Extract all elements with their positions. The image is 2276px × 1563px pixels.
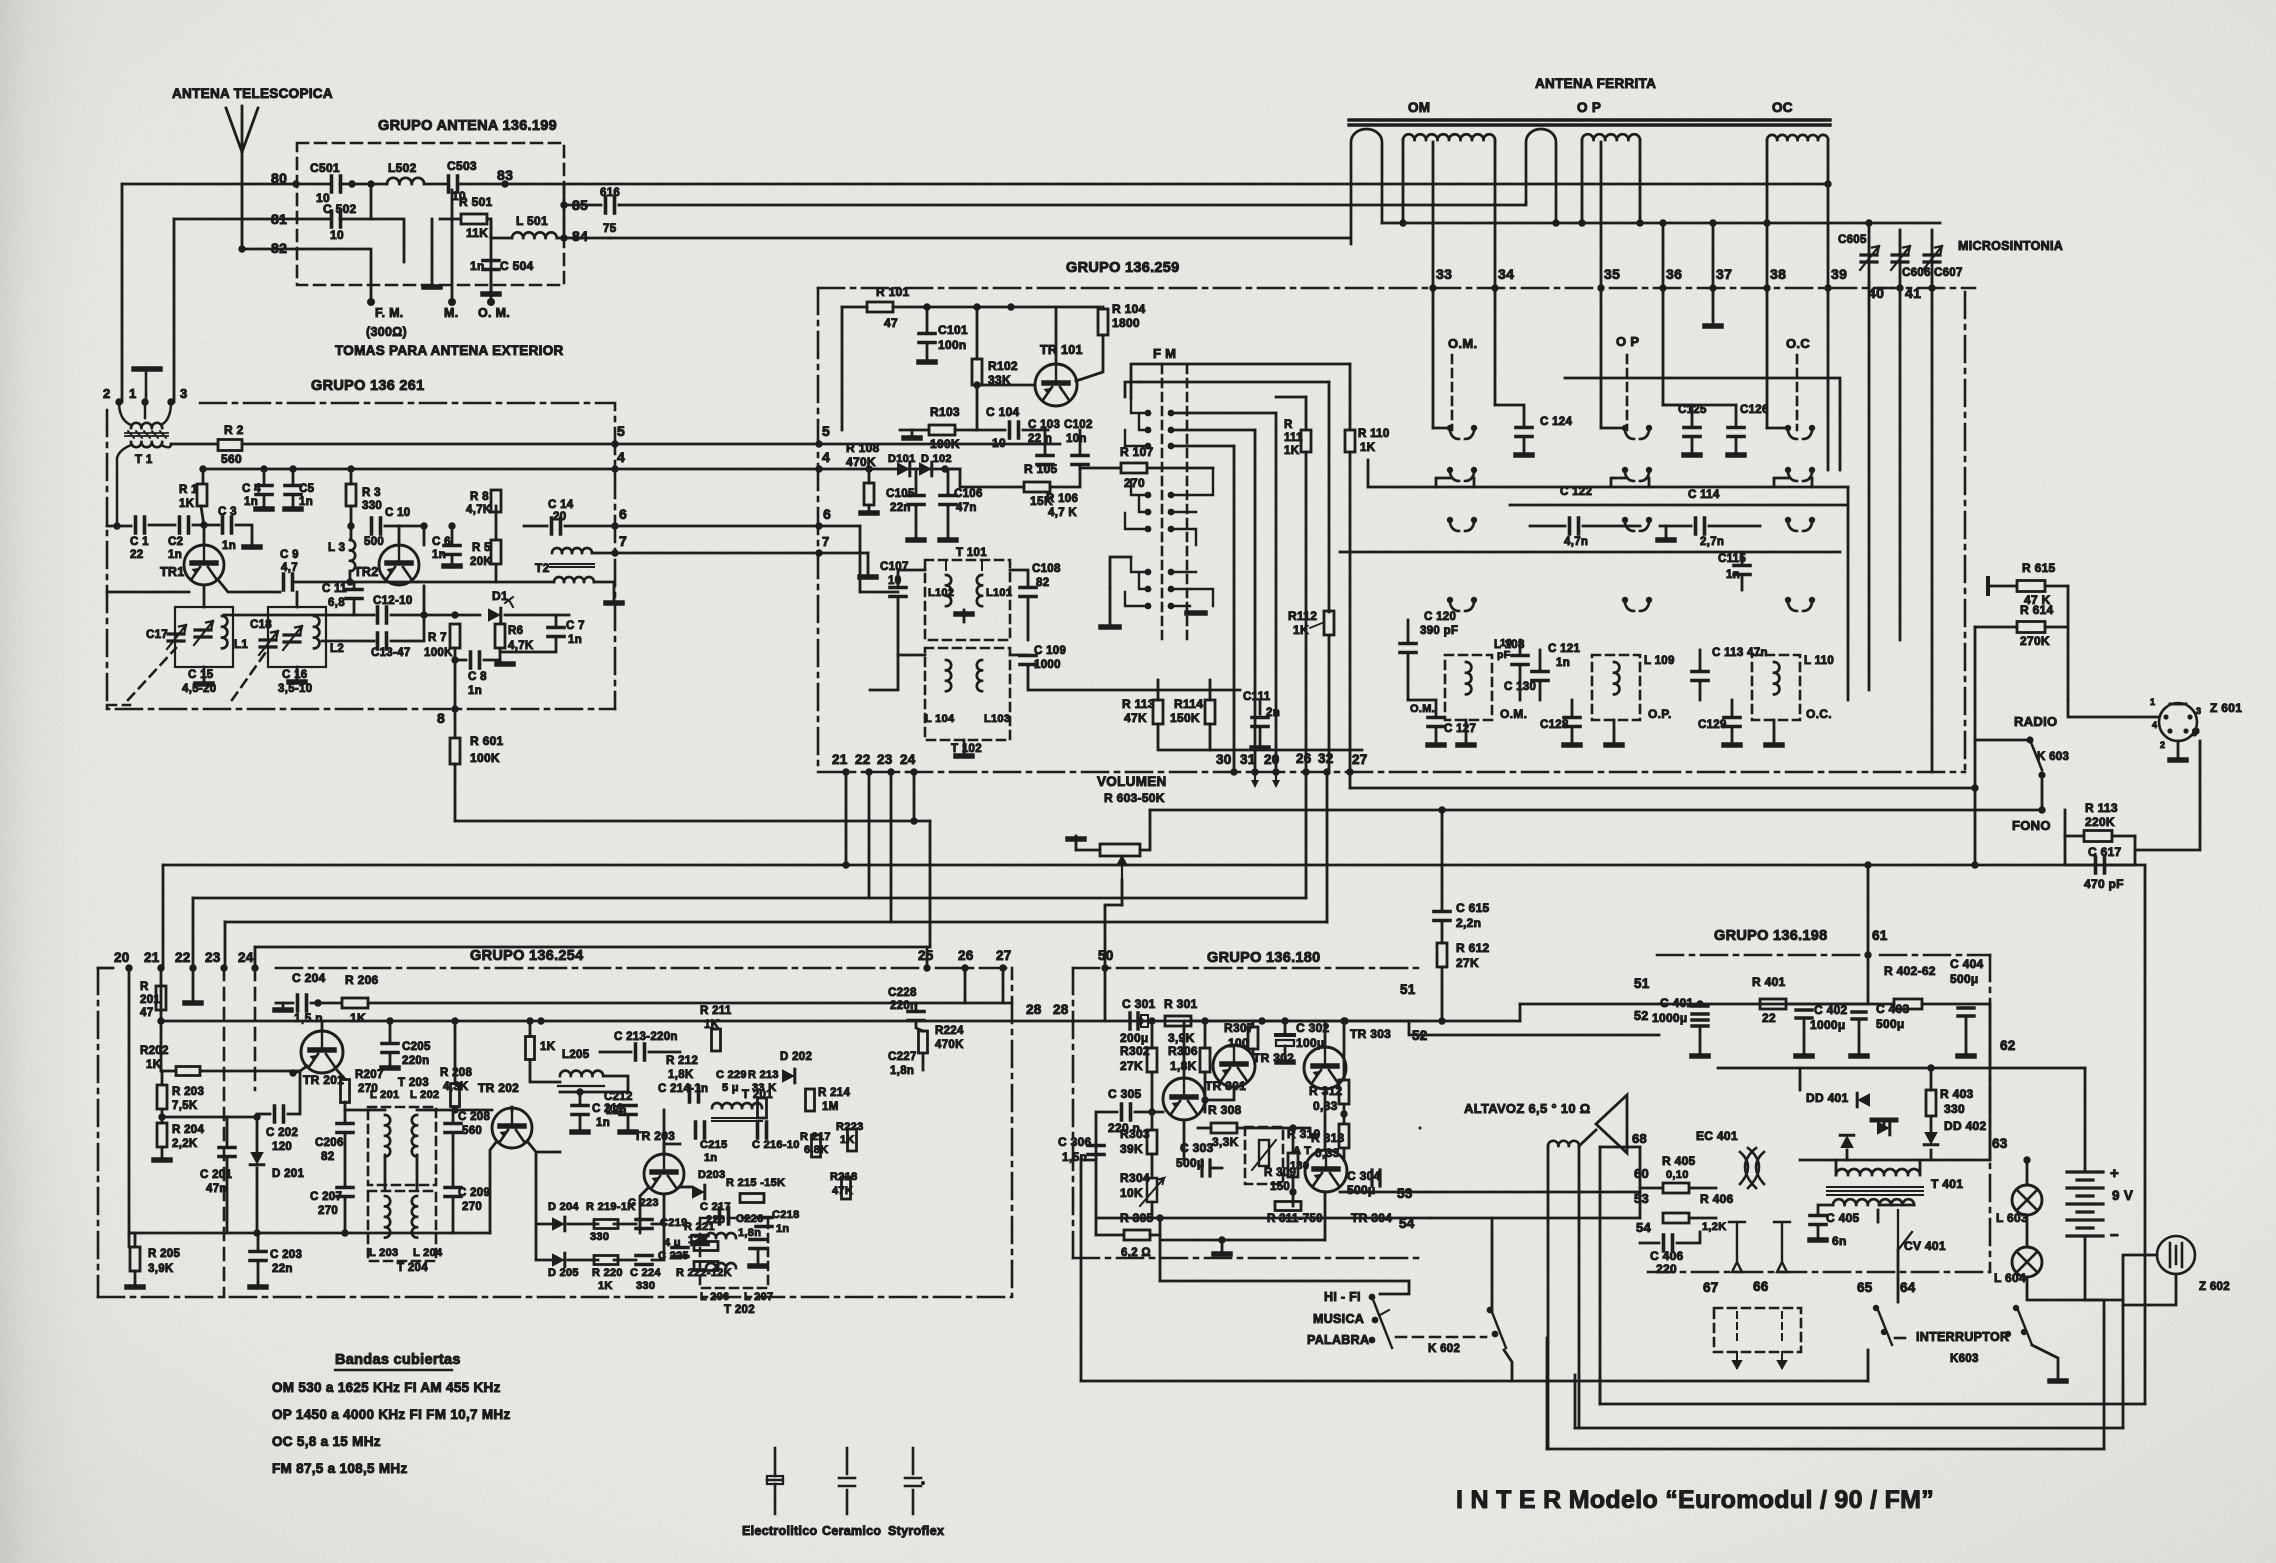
svg-text:INTERRUPTOR: INTERRUPTOR (1916, 1330, 2009, 1344)
svg-text:26: 26 (1296, 751, 1312, 766)
label C104 (986, 405, 1020, 419)
label R114 value (1170, 711, 1200, 725)
wire (505, 614, 569, 617)
svg-text:D1: D1 (492, 589, 508, 603)
wire (614, 1259, 636, 1262)
wire port20 col (128, 968, 131, 1247)
svg-text:T2: T2 (535, 561, 550, 575)
wire (898, 570, 925, 586)
label R301 value (1168, 1031, 1195, 1045)
label O.M. tank (1500, 707, 1527, 721)
label R312 value (1313, 1099, 1338, 1113)
inductor L104 (946, 660, 951, 691)
label C9 (280, 549, 299, 561)
thermistor R310 box (1245, 1127, 1283, 1184)
wire (292, 469, 295, 484)
svg-text:R207: R207 (355, 1069, 384, 1081)
svg-text:F M: F M (1153, 346, 1176, 361)
svg-text:7,5K: 7,5K (172, 1100, 198, 1112)
wire (1135, 1111, 1163, 1114)
label R104 value (1112, 316, 1140, 330)
label R612 value (1456, 956, 1479, 970)
svg-text:TR 202: TR 202 (478, 1081, 519, 1095)
wire (288, 1071, 300, 1114)
svg-text:150K: 150K (1170, 711, 1200, 725)
wire (1027, 598, 1030, 640)
wire port8 down (454, 709, 457, 737)
wire (345, 1109, 385, 1112)
wire (1613, 720, 1616, 745)
label FONO (2012, 818, 2051, 833)
svg-text:24: 24 (238, 950, 254, 965)
wire (955, 429, 977, 432)
wire (1690, 1217, 1716, 1220)
junction (1399, 219, 1406, 226)
svg-text:L 202: L 202 (410, 1089, 439, 1101)
wire row810 (1150, 809, 2042, 812)
wire (391, 586, 424, 615)
wire (431, 219, 434, 284)
dot (420, 522, 427, 529)
dot (1438, 806, 1445, 813)
label D101 (888, 453, 916, 465)
svg-text:6n: 6n (1832, 1234, 1847, 1248)
port 34 (1498, 266, 1514, 282)
svg-text:1000μ: 1000μ (1652, 1011, 1688, 1025)
junction (1659, 219, 1666, 226)
wire x1975 down (1974, 627, 1977, 865)
svg-text:35: 35 (1604, 266, 1620, 282)
label 1n (168, 549, 182, 561)
label C11 value (328, 597, 345, 609)
label C5 value (299, 496, 313, 508)
label R102 value (988, 373, 1011, 387)
wire (389, 1054, 392, 1066)
capacitor C403 glyph (1852, 1012, 1866, 1019)
label C504 (500, 259, 534, 273)
wire port22 drop (868, 772, 871, 898)
wire (1259, 728, 1262, 745)
dot (865, 465, 872, 472)
svg-text:22: 22 (855, 752, 871, 767)
wire (1343, 1021, 1346, 1080)
svg-text:23: 23 (205, 950, 221, 965)
T1 pin1 dot (141, 398, 148, 405)
svg-text:TR 303: TR 303 (1350, 1027, 1391, 1041)
label R406 value (1702, 1221, 1726, 1233)
svg-text:C 208: C 208 (458, 1111, 490, 1123)
label T102 (951, 743, 982, 755)
label bandas OC (272, 1434, 381, 1449)
svg-text:201: 201 (140, 994, 160, 1006)
label O.P. tank (1648, 707, 1672, 721)
label C403 value (1876, 1017, 1905, 1031)
label L207 (744, 1291, 773, 1303)
label K603 (2037, 751, 2069, 763)
label C401 value (1652, 1011, 1688, 1025)
wire CV401 down (1897, 1250, 1900, 1302)
resistor R102 (972, 359, 982, 385)
capacitor C102 (1072, 456, 1088, 465)
port 37 dot (1709, 284, 1716, 291)
antenna telescopica (226, 106, 258, 250)
label T101 (956, 547, 987, 559)
svg-text:220: 220 (1656, 1262, 1677, 1276)
label C121 value (1556, 657, 1570, 669)
port 53b (1634, 1191, 1649, 1206)
transformer T1 secondary (131, 442, 162, 447)
dot (1696, 1000, 1703, 1007)
wire C615 col (1441, 810, 1444, 910)
resistor R213 (758, 1098, 767, 1118)
wire (1930, 1150, 1933, 1160)
trimmer CV401 (1898, 1210, 1912, 1250)
svg-text:8: 8 (437, 710, 445, 726)
svg-text:84: 84 (572, 228, 588, 244)
OC dash (1796, 355, 1799, 430)
svg-text:C218: C218 (772, 1209, 800, 1221)
wire bottom long 4 (1547, 1448, 2104, 1451)
label L502 (388, 161, 417, 175)
port 64 (1900, 1280, 1916, 1295)
svg-text:C101: C101 (938, 323, 968, 337)
coil OC main (1767, 135, 1828, 140)
port 53 (1397, 1186, 1413, 1201)
dot (1864, 861, 1871, 868)
switch contact (1785, 597, 1815, 611)
capacitor C125 (1684, 428, 1700, 437)
wire row7 (592, 552, 868, 555)
ground C126 (1728, 452, 1744, 458)
wire (161, 1147, 164, 1158)
label C605 (1838, 234, 1867, 246)
label AT (1293, 1145, 1311, 1157)
svg-text:R302: R302 (1120, 1044, 1150, 1058)
wire switch row2 (1510, 504, 1848, 507)
svg-text:2: 2 (103, 386, 111, 401)
resistor R501 (461, 214, 487, 224)
label TR1 (160, 565, 185, 579)
label bandas OM (272, 1380, 501, 1395)
port 80 (271, 170, 287, 186)
svg-text:2,7n: 2,7n (1700, 536, 1724, 548)
port 28b (1053, 1002, 1069, 1017)
switch contact FM right (1168, 569, 1175, 576)
svg-text:L 108: L 108 (1494, 639, 1525, 651)
label R223 value (840, 1134, 855, 1146)
capacitor C224 (636, 1256, 652, 1265)
wire (1158, 724, 1362, 750)
wire (495, 564, 498, 582)
label 10 (330, 228, 344, 242)
ground L108 (1458, 742, 1474, 748)
svg-text:C126: C126 (1740, 404, 1769, 416)
svg-text:R112: R112 (1288, 609, 1317, 623)
svg-text:C 113 47n: C 113 47n (1712, 647, 1768, 659)
capacitor C205 (382, 1044, 398, 1053)
label C212 (604, 1091, 633, 1103)
wire ferrita bus (1382, 222, 1940, 225)
svg-text:39K: 39K (1120, 1142, 1143, 1156)
capacitor C301 (1130, 1013, 1148, 1029)
label R7 (428, 632, 447, 644)
terminal FM (367, 298, 375, 306)
wire (350, 469, 353, 484)
capacitor C206 (337, 1124, 353, 1133)
wire switch row1 (1368, 486, 1848, 489)
svg-text:ANTENA TELESCOPICA: ANTENA TELESCOPICA (172, 86, 333, 101)
wire nest join2 (1276, 396, 1306, 399)
port 21 dot (842, 768, 849, 775)
wire (947, 469, 950, 494)
wire (1699, 650, 1702, 670)
svg-text:TR1: TR1 (160, 565, 185, 579)
svg-text:330: 330 (590, 1231, 609, 1243)
wire 54 long (1430, 1217, 1640, 1220)
dot (1971, 861, 1978, 868)
transducer EC401 (1740, 1148, 1764, 1188)
capacitor C218 (756, 1218, 772, 1227)
label R113b (2085, 801, 2118, 815)
svg-text:37: 37 (1716, 266, 1732, 282)
label C607 (1934, 267, 1963, 279)
dot (2013, 1305, 2019, 1311)
svg-text:C 229: C 229 (716, 1069, 747, 1081)
inductor L110 box (1752, 655, 1800, 720)
label R101 (876, 285, 910, 299)
switch contact FM right (1168, 603, 1175, 610)
resistor R405 (1663, 1183, 1689, 1193)
wire col41 down (1931, 292, 1934, 772)
dot (451, 611, 458, 618)
label OM (1408, 100, 1430, 115)
resistor R202 (176, 1067, 200, 1076)
label R113 (1122, 697, 1155, 711)
svg-text:3: 3 (180, 386, 188, 401)
svg-text:65: 65 (1857, 1280, 1873, 1295)
wire (947, 506, 950, 538)
svg-text:Ceramico: Ceramico (822, 1524, 881, 1538)
svg-text:C 209: C 209 (458, 1187, 490, 1199)
wire (340, 183, 387, 186)
svg-text:150: 150 (1270, 1181, 1290, 1193)
svg-text:27: 27 (996, 948, 1012, 963)
junction (238, 245, 245, 252)
pin 4 (2152, 720, 2157, 730)
wire (1699, 682, 1702, 700)
port 22 dot (865, 768, 872, 775)
wire (227, 1116, 257, 1119)
wire c1 row (107, 525, 131, 528)
wire (1709, 525, 1760, 528)
svg-text:3,9K: 3,9K (1168, 1031, 1195, 1045)
ground C105 (908, 537, 924, 543)
svg-text:R 113: R 113 (2085, 801, 2118, 815)
wire (1198, 1127, 1211, 1130)
svg-text:C 406: C 406 (1650, 1249, 1684, 1263)
port 39 (1831, 266, 1847, 282)
label C102 (1064, 419, 1093, 431)
transistor TR1 (184, 545, 224, 585)
switch K603 interruptor right (2018, 1310, 2032, 1345)
resistor R103 (929, 425, 955, 435)
svg-text:C 216-10: C 216-10 (752, 1139, 800, 1151)
label C114 (1688, 489, 1720, 501)
wire (536, 1259, 552, 1262)
capacitor C9 (284, 574, 293, 590)
wire R101 row (893, 306, 1100, 309)
wire (1028, 666, 1240, 690)
svg-text:C 8: C 8 (468, 671, 487, 683)
ground C6 (444, 563, 460, 569)
label C216 (752, 1139, 800, 1151)
FM dashed left (1161, 365, 1164, 640)
label R110 (1358, 428, 1390, 440)
svg-text:R224: R224 (935, 1025, 964, 1037)
inductor L1 (222, 616, 227, 648)
wire (1441, 922, 1444, 943)
svg-text:500μ: 500μ (1176, 1156, 1205, 1170)
label C3 (218, 506, 237, 518)
svg-text:2n: 2n (1266, 707, 1280, 719)
svg-text:C 109: C 109 (1034, 645, 1066, 657)
wire TR1 collector to C9 (219, 581, 280, 592)
switch contact FM right (1168, 509, 1175, 516)
svg-text:53: 53 (1397, 1186, 1413, 1201)
dot (1873, 1305, 1879, 1311)
svg-text:T 204: T 204 (397, 1262, 428, 1274)
label C108 value (1036, 577, 1049, 589)
inductor L204 (412, 1196, 417, 1238)
svg-text:C 404: C 404 (1950, 957, 1984, 971)
label R201c (140, 1007, 153, 1019)
label C301 (1122, 997, 1156, 1011)
wire (1284, 1046, 1287, 1060)
svg-text:100: 100 (1228, 1036, 1249, 1050)
svg-text:47: 47 (884, 316, 898, 330)
wire bus row8 (455, 820, 930, 823)
svg-text:R 8: R 8 (470, 491, 489, 503)
wire (536, 1223, 552, 1226)
dot (157, 1017, 164, 1024)
wire (2045, 585, 2068, 588)
svg-text:4: 4 (617, 449, 625, 465)
wire bus row21 long (163, 864, 2145, 867)
svg-text:K 603: K 603 (2037, 751, 2069, 763)
wire (256, 1117, 259, 1152)
port 35 (1604, 266, 1620, 282)
svg-text:1n: 1n (168, 549, 182, 561)
ground row7 (860, 574, 876, 580)
port 26 dot (961, 964, 968, 971)
port 63 (1992, 1136, 2008, 1151)
wire (679, 1186, 692, 1189)
port 30 dot (1230, 768, 1237, 775)
svg-text:1000μ: 1000μ (1810, 1018, 1846, 1032)
wire row80 long (564, 183, 1828, 186)
label R207 (355, 1069, 384, 1081)
svg-text:10: 10 (330, 228, 344, 242)
wire (134, 1271, 137, 1284)
dot (347, 522, 354, 529)
port 40 (1868, 285, 1884, 301)
diode D202 (782, 1069, 795, 1083)
wire (1799, 1068, 1802, 1090)
wire (1292, 1128, 1295, 1153)
svg-text:500μ: 500μ (1876, 1017, 1905, 1031)
svg-text:560: 560 (462, 1125, 482, 1137)
label C4 value (244, 496, 258, 508)
label O.M. switch (1448, 336, 1477, 351)
wire (1786, 1003, 1868, 1006)
ground Z601 (2170, 757, 2186, 763)
trimmer C16 (283, 626, 302, 650)
resistor R308 (1211, 1123, 1237, 1133)
wire (1435, 700, 1438, 716)
dot (2192, 727, 2199, 734)
capacitor C124 (1516, 428, 1532, 437)
label R203 value (172, 1100, 198, 1112)
ground L109 (1606, 742, 1622, 748)
wire (976, 398, 979, 430)
switch contact (1785, 517, 1815, 531)
wire TR203 base (663, 1110, 666, 1154)
capacitor C106 (940, 496, 956, 505)
svg-text:C 120: C 120 (1424, 611, 1456, 623)
resistor R313 (1339, 1124, 1349, 1148)
wire (1741, 576, 1744, 590)
wire port27 drop (1349, 772, 1352, 788)
wire 62 across (1718, 1060, 1990, 1068)
label R110 value (1360, 442, 1376, 454)
wire wiper down (1121, 880, 1124, 905)
label C219x (660, 1217, 688, 1229)
svg-text:O P: O P (1616, 334, 1639, 349)
svg-text:FONO: FONO (2012, 818, 2051, 833)
label C302 value (1296, 1036, 1325, 1050)
svg-text:C 207: C 207 (310, 1191, 342, 1203)
dot (253, 1113, 260, 1120)
dot (158, 1113, 165, 1120)
label C17 (146, 629, 168, 641)
terminal M (448, 298, 456, 306)
transformer T1 leads2 (117, 444, 171, 526)
resistor R223 (848, 1129, 857, 1151)
label ANTENA FERRITA (1535, 76, 1656, 91)
port 21 (832, 752, 848, 767)
transistor TR202 (492, 1108, 532, 1148)
transistor TR2 (379, 545, 419, 585)
capacitor C107 (890, 588, 906, 597)
transistor TR203 (644, 1154, 684, 1194)
wire K602 dashed (1396, 1336, 1486, 1339)
wire coil OM left leg (1402, 140, 1405, 223)
switch contact FM left (1145, 492, 1152, 499)
wire port22 left drop (192, 898, 195, 968)
wire (350, 506, 353, 540)
wire (292, 496, 295, 507)
svg-text:OC: OC (1772, 100, 1793, 115)
capacitor C615 (1434, 912, 1450, 921)
wire rail 254 bottom (129, 1232, 453, 1235)
port 8 dot (451, 705, 458, 712)
wire (898, 598, 925, 655)
label MICROSINTONIA (1958, 239, 2063, 253)
label C305 value (1108, 1121, 1140, 1135)
wire (500, 638, 556, 652)
label C7 (566, 620, 585, 632)
label R601 (470, 734, 504, 748)
